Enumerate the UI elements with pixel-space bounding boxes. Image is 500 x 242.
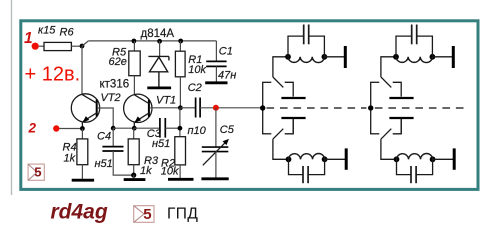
wire VT2 collector (81, 46, 83, 95)
svg-text:н51: н51 (152, 138, 170, 150)
ground bar R3 (124, 178, 146, 181)
svg-text:н51: н51 (95, 158, 113, 170)
wire C3 to R2 node (165, 127, 180, 129)
wire blade to tank2 top (381, 57, 396, 77)
inductor L2 (289, 154, 325, 160)
ground bar R4 (72, 179, 94, 182)
wire rail to R5 (133, 41, 135, 51)
node tank1top left (285, 54, 291, 60)
svg-text:C2: C2 (188, 82, 202, 94)
wire C5 to ground (215, 152, 217, 178)
wire rail to zener (159, 41, 161, 56)
node after R6 (80, 44, 85, 49)
wire VT1 base to node (150, 107, 180, 109)
switch S2b stub left (370, 133, 379, 135)
inductor L1 (288, 57, 324, 63)
svg-text:10k: 10k (161, 166, 179, 178)
wire blade to tank2 bottom (381, 139, 397, 159)
resistor R2 (175, 137, 186, 165)
variable cap rotor plate top block1 (281, 97, 305, 99)
svg-text:C5: C5 (220, 124, 235, 136)
capacitor C1 (206, 60, 226, 62)
wire terminal2 to VT2 emitter (60, 128, 83, 130)
inductor L4 (397, 154, 433, 160)
svg-text:2: 2 (28, 121, 37, 136)
svg-text:п10: п10 (188, 125, 207, 137)
wire to ground bar (133, 175, 135, 179)
wire base node to C2 (180, 107, 195, 109)
wire base node down to R2 node (179, 108, 181, 137)
svg-text:62е: 62е (109, 56, 127, 68)
wire R2 to ground (179, 165, 181, 179)
dashed mechanical link line (267, 107, 367, 109)
wire tank1bot to bar (325, 158, 345, 160)
bus wire block1 (262, 82, 264, 134)
capacitor C2 (195, 98, 197, 118)
switch S1a stub left (262, 81, 271, 83)
sheet flag symbol 5 lower (134, 206, 154, 223)
svg-text:5: 5 (34, 164, 41, 179)
wire tank1 to bar (324, 56, 344, 58)
variable cap rotor plate bottom block2 (389, 117, 413, 119)
wire output to C5 (215, 108, 217, 147)
zener diode VD1 (148, 56, 169, 86)
wire R3 to ground node (133, 165, 135, 175)
wire rail to R1 (179, 41, 181, 51)
wire C1 to ground (215, 66, 217, 81)
svg-text:кт316: кт316 (100, 79, 130, 91)
scan artifact gray line (11, 0, 13, 195)
node tank2top left (393, 54, 399, 60)
bus node block2 (368, 105, 373, 110)
wire C4 to R3 foot (113, 151, 134, 175)
wire VT1 emitter to R3 (133, 128, 135, 139)
wire R6 to junction (71, 45, 82, 47)
resistor R6 (44, 42, 71, 50)
wire jog up to supply rail (82, 41, 88, 46)
terminal bar tank1 top (344, 46, 347, 68)
switch S1b stub right (285, 119, 294, 134)
variable cap rotor plate top block2 (389, 97, 413, 99)
wire terminal1 to R6 (39, 45, 44, 47)
transistor VT1 (124, 94, 152, 128)
switch S1a blade (273, 77, 283, 87)
svg-text:R6: R6 (60, 27, 75, 39)
svg-text:1k: 1k (64, 153, 76, 165)
wire rail corner to C1 (215, 41, 217, 62)
supply rail wire (88, 40, 216, 42)
capacitor tank2 bottom (397, 159, 433, 183)
capacitor tank1 bottom (289, 159, 325, 183)
output node red dot (213, 105, 219, 111)
switch S2a stub left (370, 81, 379, 83)
node 2 terminal dot (53, 125, 59, 131)
resistor R1 (175, 51, 185, 77)
svg-text:rd4ag: rd4ag (51, 201, 108, 224)
node VT2 base / C4 (111, 126, 116, 131)
node tank1bot right (322, 156, 328, 162)
switch S1b blade (273, 129, 283, 139)
wire C2 to bus (200, 107, 263, 109)
wire VT2 base lead (98, 108, 114, 128)
resistor R3 (128, 139, 139, 165)
wire tank2bot to bar (433, 158, 453, 160)
wire blade to tank1 bottom (273, 139, 289, 159)
svg-text:VT1: VT1 (156, 94, 176, 106)
bus wire block2 (370, 82, 372, 134)
lead bottom plate block1 (292, 119, 294, 134)
node tank1top right (322, 54, 328, 60)
node rail-R5 (132, 39, 137, 44)
node R2 top (178, 126, 183, 131)
node R3 foot (131, 173, 136, 178)
wire R1 to base node (179, 77, 181, 108)
node VT2 emitter (80, 126, 85, 131)
wire R4 to ground (81, 165, 83, 180)
switch S1b stub left (262, 133, 271, 135)
wire R5 to VT1 collector (133, 76, 135, 95)
node rail-zener (157, 39, 162, 44)
switch S2b stub right (393, 119, 402, 134)
svg-text:к15: к15 (38, 25, 56, 37)
switch S2a blade (381, 77, 391, 87)
svg-text:1: 1 (24, 30, 33, 47)
svg-text:VT2: VT2 (101, 92, 121, 104)
node tank2bot left (394, 156, 400, 162)
resistor R5 (129, 51, 140, 76)
node R1-VT1 base (178, 105, 183, 110)
wire tank2 to bar (432, 56, 452, 58)
node tank2bot right (430, 156, 436, 162)
switch S2a stub right (393, 82, 402, 96)
capacitor tank1 top (288, 25, 324, 57)
capacitor C3 (159, 118, 161, 138)
wire VT1 emitter to C3 (134, 127, 160, 129)
node tank2top right (430, 54, 436, 60)
sheet flag symbol 5 upper (28, 164, 44, 180)
capacitor tank2 top (396, 25, 432, 57)
svg-text:C1: C1 (219, 46, 233, 58)
inductor L3 (396, 57, 432, 63)
wire VT2 emitter to R4 (81, 129, 83, 139)
switch S2b blade (381, 129, 391, 139)
node VT1 emitter (132, 126, 137, 131)
variable cap rotor plate bottom block1 (281, 117, 305, 119)
svg-text:д814А: д814А (141, 28, 175, 40)
ground bar C1 (205, 81, 227, 84)
ground bar R2 (168, 178, 194, 181)
resistor R4 (77, 139, 88, 165)
variable capacitor C5 (202, 146, 229, 148)
node tank1bot left (286, 156, 292, 162)
wire C4 node to VT1 emitter node (113, 127, 134, 129)
svg-text:10k: 10k (188, 64, 206, 76)
switch S1a stub right (285, 82, 294, 96)
node 1 terminal dot (32, 43, 39, 50)
terminal bar tank2 top (452, 46, 455, 68)
svg-text:ГПД: ГПД (167, 205, 198, 222)
terminal bar tank2 bottom (453, 148, 456, 169)
capacitor C4 (112, 128, 114, 146)
svg-text:C4: C4 (97, 131, 111, 143)
svg-text:47н: 47н (218, 70, 236, 82)
ground bar C5 (201, 177, 228, 180)
border frame (21, 21, 478, 190)
lead bottom plate block2 (400, 119, 402, 134)
terminal bar tank1 bottom (345, 148, 348, 169)
node rail-R1 (178, 39, 183, 44)
svg-text:1k: 1k (140, 165, 152, 177)
ground bar zener (147, 87, 171, 90)
svg-text:+ 12в.: + 12в. (25, 64, 81, 86)
svg-text:5: 5 (143, 206, 151, 223)
wire blade to tank1 top (273, 57, 288, 77)
transistor VT2 (71, 94, 99, 129)
bus node block1 (260, 105, 265, 110)
